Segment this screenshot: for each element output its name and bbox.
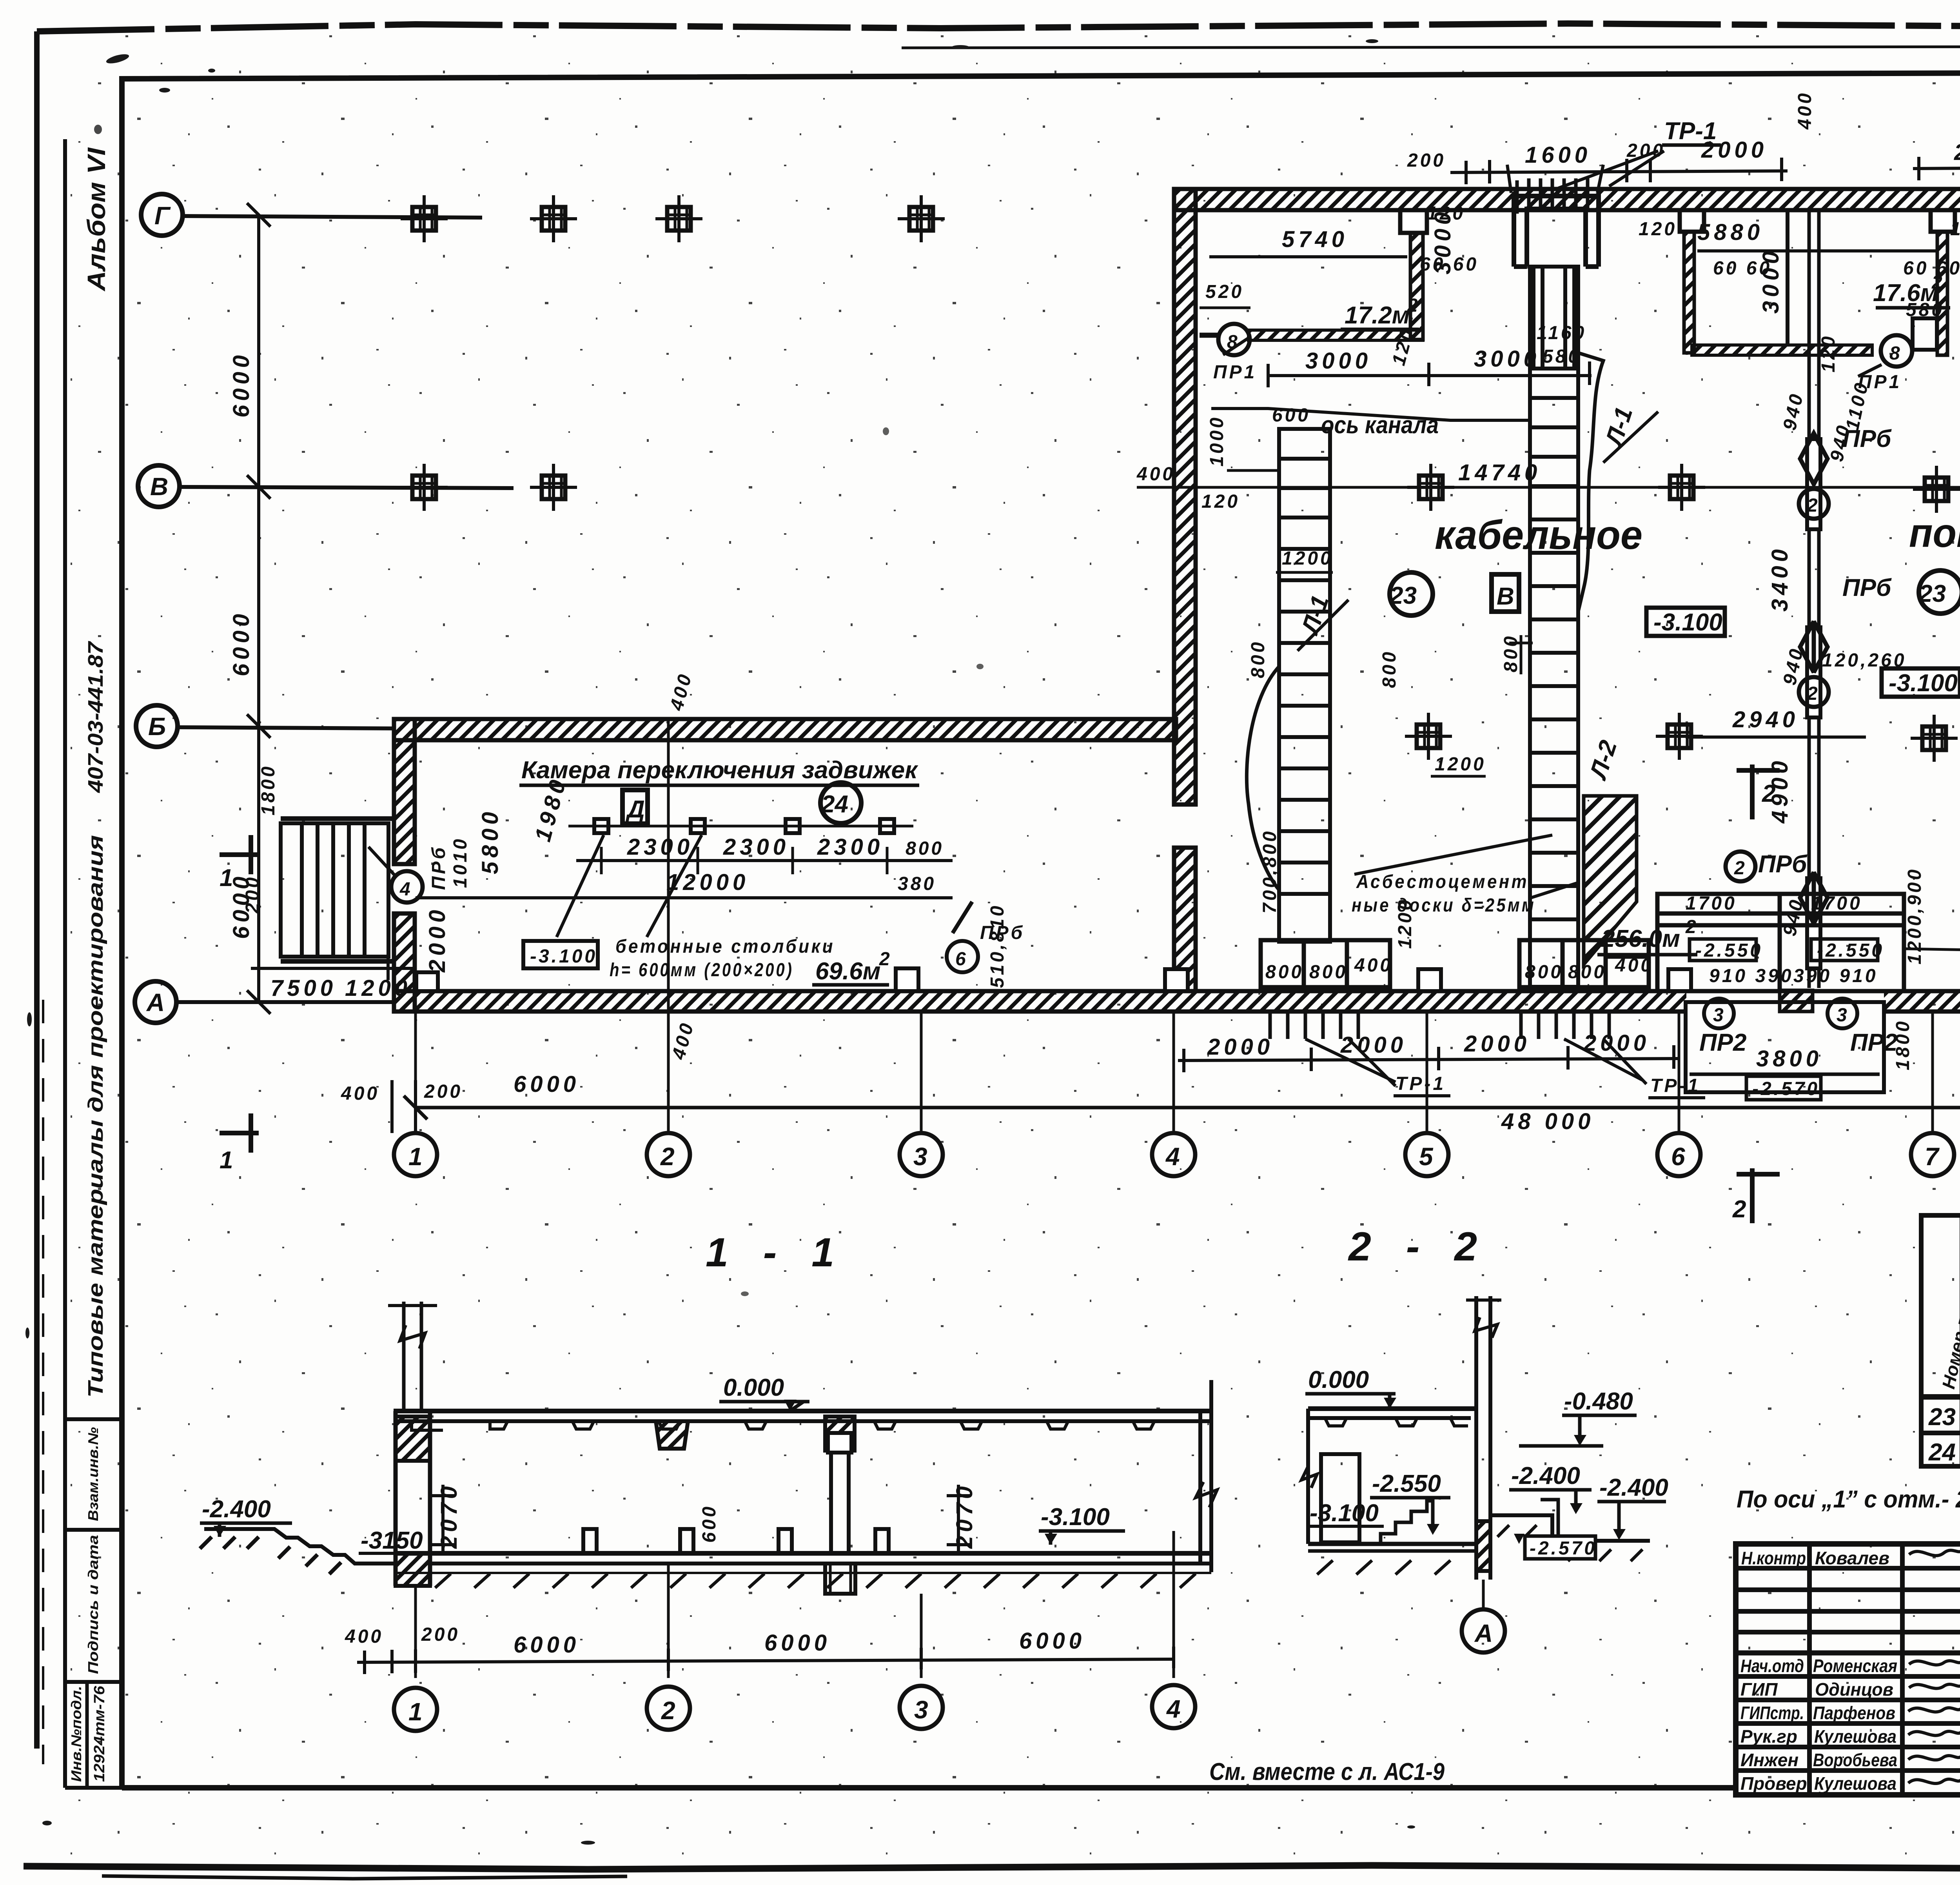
svg-text:1 - 1: 1 - 1	[706, 1230, 846, 1275]
svg-text:2: 2	[879, 949, 892, 970]
axis circle Б	[136, 705, 178, 747]
axis circle В	[138, 465, 180, 507]
svg-text:800: 800	[1525, 962, 1563, 982]
svg-text:ГИП: ГИП	[1740, 1679, 1778, 1700]
svg-text:Подпись и дата: Подпись и дата	[85, 1535, 101, 1674]
svg-text:6000: 6000	[1019, 1628, 1085, 1654]
svg-text:6000: 6000	[514, 1071, 580, 1097]
ground right	[1490, 1515, 1650, 1541]
svg-text:А: А	[1474, 1619, 1493, 1647]
svg-text:ТР-1: ТР-1	[1650, 1075, 1700, 1096]
roof slab	[394, 1409, 1211, 1413]
svg-text:1: 1	[220, 864, 233, 892]
svg-text:1160: 1160	[1537, 323, 1586, 343]
svg-text:Рук.гр: Рук.гр	[1740, 1726, 1797, 1747]
svg-text:2 - 2: 2 - 2	[1348, 1224, 1489, 1269]
low building west wall upper	[394, 719, 415, 864]
floor slab	[1308, 1542, 1476, 1546]
axis В line inside building	[1137, 486, 1960, 489]
svg-text:2000: 2000	[1583, 1030, 1650, 1056]
svg-text:1000: 1000	[1207, 415, 1227, 467]
level mark -3.100	[523, 941, 598, 968]
svg-text:800: 800	[1265, 962, 1304, 982]
svg-text:5: 5	[1419, 1142, 1434, 1171]
svg-text:2070: 2070	[952, 1482, 977, 1549]
svg-text:2000: 2000	[1701, 137, 1768, 163]
svg-text:-0.480: -0.480	[1564, 1388, 1633, 1415]
door stub west wall	[416, 972, 438, 991]
svg-text:-2.570: -2.570	[1530, 1538, 1597, 1559]
svg-text:2: 2	[1762, 780, 1775, 807]
wall continues up with break	[404, 1302, 421, 1411]
svg-text:Кулешова: Кулешова	[1814, 1726, 1896, 1747]
axis 2 line through low building	[667, 719, 670, 1012]
svg-text:ПРб: ПРб	[428, 845, 449, 890]
svg-text:6000: 6000	[229, 610, 254, 676]
48000 dimension line	[416, 1106, 1960, 1110]
svg-text:7500: 7500	[270, 975, 337, 1001]
svg-text:200: 200	[1407, 150, 1446, 171]
pit gap in south wall	[1686, 988, 1884, 1014]
svg-text:1200: 1200	[345, 975, 411, 1001]
svg-text:200: 200	[421, 1624, 460, 1645]
svg-text:кабельное: кабельное	[1435, 512, 1642, 558]
svg-text:520: 520	[1205, 281, 1244, 302]
column markers inside building : axis В row	[1407, 464, 1454, 511]
svg-text:1200: 1200	[1395, 897, 1416, 949]
svg-text:1700: 1700	[1686, 893, 1737, 914]
concrete posts row	[568, 819, 953, 874]
left margin column lines	[65, 139, 122, 1788]
ground hatch under floor	[435, 1574, 1196, 1588]
svg-text:3: 3	[1713, 1005, 1726, 1026]
svg-text:510,810: 510,810	[987, 903, 1008, 988]
svg-text:-2.570: -2.570	[1752, 1079, 1820, 1099]
closet	[1321, 1454, 1359, 1542]
svg-text:1800: 1800	[258, 764, 279, 815]
svg-text:Одинцов: Одинцов	[1815, 1679, 1893, 1700]
svg-text:-3.100: -3.100	[1041, 1504, 1110, 1531]
svg-text:7: 7	[1925, 1142, 1940, 1171]
svg-text:120: 120	[1427, 203, 1465, 224]
svg-text:400: 400	[345, 1626, 383, 1647]
12000 dim	[416, 896, 953, 899]
svg-text:Камера переключения задвижек: Камера переключения задвижек	[521, 757, 918, 784]
room number 24	[820, 783, 861, 823]
interior posts	[583, 1529, 597, 1553]
svg-text:1600: 1600	[1525, 142, 1591, 168]
room number 23 right	[1919, 570, 1960, 614]
axis circle А	[135, 981, 176, 1023]
svg-text:В: В	[150, 472, 168, 501]
svg-text:Д: Д	[625, 796, 645, 823]
svg-text:6000: 6000	[514, 1632, 580, 1658]
svg-text:2: 2	[1734, 858, 1747, 879]
svg-text:580: 580	[1906, 300, 1944, 320]
axis В line	[180, 487, 514, 488]
svg-text:-2.550: -2.550	[1372, 1470, 1441, 1497]
svg-text:14740: 14740	[1458, 460, 1541, 485]
svg-text:2070: 2070	[436, 1482, 462, 1549]
svg-text:2300: 2300	[627, 834, 693, 860]
svg-text:ГИПстр.: ГИПстр.	[1740, 1703, 1804, 1723]
section 1-1 axis circles	[394, 1685, 1195, 1731]
svg-text:Инв.№подл.: Инв.№подл.	[68, 1686, 84, 1782]
svg-text:800: 800	[1309, 962, 1348, 982]
svg-text:580: 580	[1543, 346, 1581, 367]
svg-text:256.0м: 256.0м	[1601, 925, 1680, 952]
svg-text:ПРб: ПРб	[1758, 851, 1808, 878]
svg-text:8: 8	[1889, 343, 1902, 364]
svg-text:1200: 1200	[1282, 548, 1333, 569]
svg-text:2300: 2300	[723, 834, 789, 860]
svg-text:-3.100: -3.100	[1653, 609, 1722, 636]
svg-text:Инжен: Инжен	[1740, 1750, 1798, 1770]
svg-text:2: 2	[1931, 272, 1945, 293]
svg-text:5800: 5800	[477, 808, 503, 874]
axis Г line	[183, 216, 482, 218]
column markers along axis В outside building	[401, 464, 448, 511]
svg-text:-2.550: -2.550	[1695, 940, 1763, 961]
west wall upper	[1174, 189, 1196, 804]
svg-text:23: 23	[1918, 580, 1946, 607]
svg-text:Асбестоцемент: Асбестоцемент	[1356, 872, 1529, 892]
svg-text:800: 800	[1379, 650, 1400, 688]
room A partition walls	[1200, 210, 1423, 340]
dim rows below south wall	[1178, 1041, 1960, 1072]
svg-text:Типовые материалы для проектир: Типовые материалы для проектирования	[84, 835, 107, 1398]
svg-text:-2.400: -2.400	[1599, 1474, 1668, 1501]
svg-text:120: 120	[1201, 491, 1240, 512]
svg-text:2000: 2000	[1954, 140, 1960, 165]
svg-text:3: 3	[914, 1696, 928, 1724]
svg-text:1800: 1800	[1893, 1019, 1913, 1070]
low building west wall lower	[394, 913, 415, 1012]
svg-text:-3.100: -3.100	[1310, 1500, 1379, 1527]
svg-text:69.6м: 69.6м	[815, 958, 881, 985]
svg-text:407-03-441.87: 407-03-441.87	[84, 641, 107, 793]
floor slab	[396, 1551, 1211, 1556]
-3.100 box left	[1646, 608, 1725, 636]
svg-text:800: 800	[1568, 962, 1606, 982]
svg-text:2: 2	[1407, 295, 1420, 316]
svg-text:400: 400	[341, 1083, 379, 1104]
svg-text:120: 120	[1818, 334, 1839, 372]
svg-text:23: 23	[1928, 1404, 1956, 1431]
svg-text:6: 6	[1671, 1142, 1685, 1171]
section mark 2 below	[1737, 1168, 1780, 1223]
svg-text:700,800: 700,800	[1259, 829, 1280, 913]
svg-text:120: 120	[1639, 219, 1677, 240]
column markers along axis Г	[401, 195, 1960, 762]
svg-text:600: 600	[699, 1504, 720, 1543]
Л-2 hatched stair area near middle shaft	[1584, 796, 1637, 964]
north wall	[1174, 189, 1960, 210]
svg-text:ПР1: ПР1	[1213, 362, 1257, 383]
svg-text:2300: 2300	[817, 834, 884, 860]
south wall full width low+main	[394, 991, 1960, 1012]
svg-text:400: 400	[1795, 91, 1815, 130]
svg-text:2: 2	[1807, 495, 1820, 516]
svg-text:24: 24	[821, 791, 848, 818]
svg-text:-3.100: -3.100	[1889, 670, 1958, 697]
svg-text:Ковалев: Ковалев	[1815, 1548, 1889, 1568]
svg-text:3: 3	[913, 1142, 927, 1171]
svg-text:2: 2	[1732, 1196, 1746, 1223]
svg-text:помещение: помещение	[1909, 510, 1960, 556]
svg-text:910 390: 910 390	[1709, 966, 1794, 986]
stair dim lines 7500 1200	[251, 967, 416, 970]
svg-text:48 000: 48 000	[1501, 1109, 1594, 1134]
svg-text:2: 2	[1807, 683, 1820, 704]
svg-text:6000: 6000	[229, 351, 254, 418]
svg-text:4: 4	[1166, 1695, 1181, 1723]
signatures squiggles	[1908, 1550, 1960, 1783]
svg-text:бетонные столбики: бетонные столбики	[615, 936, 835, 957]
svg-text:2: 2	[1685, 917, 1699, 937]
svg-text:Кулешова: Кулешова	[1814, 1773, 1896, 1794]
svg-text:380: 380	[898, 873, 936, 894]
svg-text:400: 400	[1615, 955, 1653, 976]
svg-text:2000: 2000	[1464, 1031, 1530, 1057]
svg-text:2000: 2000	[1340, 1032, 1407, 1058]
svg-text:ные доски δ=25мм: ные доски δ=25мм	[1352, 895, 1536, 916]
west wall lower piece	[1174, 848, 1196, 991]
foundation block bottom of left shaft	[1261, 940, 1390, 987]
svg-text:Воробьева: Воробьева	[1813, 1750, 1897, 1770]
svg-text:3400: 3400	[1767, 545, 1793, 612]
svg-text:-2.400: -2.400	[1511, 1462, 1580, 1489]
svg-text:0.000: 0.000	[1308, 1366, 1369, 1393]
svg-text:Взам.инв.№: Взам.инв.№	[85, 1427, 101, 1521]
svg-text:3000: 3000	[1474, 346, 1540, 372]
west entry stair of low building	[251, 819, 416, 980]
left margin rotated captions	[68, 147, 111, 1782]
axis A circle below	[1482, 1580, 1485, 1609]
dims below section 1-1	[416, 1531, 1174, 1678]
dims above portal 200 1600 200 2000	[1450, 171, 1788, 173]
column stub room A top	[1400, 210, 1427, 233]
door mark circle 4 west wall	[391, 871, 423, 903]
foundation block bottom of middle shaft	[1519, 940, 1649, 987]
outer page border top heavy dashed	[37, 24, 1960, 31]
fire door diamonds	[1726, 433, 1829, 923]
svg-text:17.2м: 17.2м	[1345, 302, 1410, 329]
axis A wall	[1476, 1296, 1490, 1580]
svg-text:12000: 12000	[666, 870, 749, 895]
svg-text:-3150: -3150	[361, 1527, 423, 1554]
svg-text:-2.400: -2.400	[202, 1496, 271, 1523]
svg-text:В: В	[1497, 583, 1514, 610]
low building north wall	[394, 719, 1960, 1012]
svg-text:60 60: 60 60	[1420, 254, 1479, 275]
axis 3 column	[831, 1433, 849, 1553]
svg-text:200: 200	[1626, 140, 1665, 161]
svg-text:ТР-1: ТР-1	[1396, 1073, 1446, 1094]
svg-text:4: 4	[1165, 1142, 1180, 1171]
left edge with break	[1306, 1409, 1310, 1544]
svg-text:По оси „1” с отм.- 2.130 до от: По оси „1” с отм.- 2.130 до отм.- 0.030 …	[1737, 1486, 1960, 1513]
axis А line	[176, 1000, 396, 1004]
outer page border bottom wavy	[24, 1865, 1960, 1869]
svg-text:2: 2	[661, 1696, 675, 1725]
svg-text:4: 4	[399, 879, 413, 900]
ticks on north wall at portal	[1517, 178, 1588, 214]
right wall with break	[1200, 1380, 1211, 1572]
svg-text:3000: 3000	[1758, 247, 1784, 314]
svg-text:См. вместе с л. АС1-9: См. вместе с л. АС1-9	[1209, 1758, 1445, 1785]
svg-text:12924тм-76: 12924тм-76	[91, 1685, 108, 1782]
vertical dimension line between axes	[257, 215, 260, 1002]
svg-text:400: 400	[1354, 955, 1393, 976]
svg-text:Альбом VI: Альбом VI	[82, 147, 111, 292]
svg-text:1: 1	[408, 1142, 423, 1171]
axis Б line	[178, 727, 396, 728]
svg-text:120: 120	[1950, 219, 1960, 240]
svg-text:800: 800	[1501, 634, 1521, 672]
svg-text:2: 2	[660, 1142, 675, 1171]
svg-text:2940: 2940	[1732, 707, 1799, 732]
svg-text:24: 24	[1928, 1439, 1956, 1466]
svg-text:800: 800	[1248, 640, 1269, 678]
left wall	[396, 1411, 430, 1586]
svg-text:5740: 5740	[1282, 227, 1348, 252]
steps	[1381, 1501, 1434, 1545]
svg-text:1010: 1010	[450, 837, 471, 888]
svg-text:0.000: 0.000	[723, 1374, 784, 1401]
svg-text:3000: 3000	[1305, 348, 1372, 374]
dims 400 200 6000 left	[392, 1080, 416, 1133]
column markers inside building : axis Б row	[1405, 713, 1452, 760]
svg-text:200: 200	[424, 1081, 463, 1102]
svg-text:3: 3	[1837, 1005, 1849, 1026]
wavy open edge	[1578, 353, 1603, 612]
svg-text:Н.контр: Н.контр	[1741, 1548, 1806, 1568]
room A door mark 8	[1218, 324, 1250, 355]
svg-text:ось канала: ось канала	[1321, 412, 1439, 439]
svg-text:Парфенов: Парфенов	[1813, 1703, 1895, 1723]
svg-text:23: 23	[1389, 582, 1417, 609]
svg-text:1700: 1700	[1811, 893, 1862, 914]
svg-text:Г: Г	[154, 202, 171, 230]
svg-text:5880: 5880	[1697, 220, 1764, 245]
svg-text:ПРб: ПРб	[1842, 574, 1892, 601]
TP-1 tick groups under south wall	[1270, 1012, 1960, 1039]
svg-text:3800: 3800	[1756, 1046, 1822, 1071]
svg-text:1: 1	[220, 1147, 233, 1174]
roof slab	[1308, 1406, 1476, 1411]
svg-text:-3.100: -3.100	[530, 946, 597, 967]
svg-text:6: 6	[955, 949, 968, 970]
svg-text:400: 400	[1136, 464, 1175, 485]
svg-text:ПРб: ПРб	[1842, 425, 1892, 452]
svg-text:h= 600мм (200×200): h= 600мм (200×200)	[610, 960, 794, 981]
outer page border left	[34, 31, 40, 1749]
ground hatch left steps	[204, 1529, 396, 1564]
svg-text:800: 800	[906, 838, 944, 859]
svg-text:ПР2: ПР2	[1850, 1029, 1897, 1056]
svg-text:2000: 2000	[1207, 1034, 1274, 1060]
room mark Д	[622, 790, 648, 824]
svg-text:2000: 2000	[425, 906, 450, 973]
middle stair shaft	[1530, 267, 1603, 987]
svg-text:Б: Б	[148, 712, 166, 741]
svg-text:390 910: 390 910	[1793, 966, 1878, 986]
svg-text:А: А	[146, 988, 165, 1017]
svg-text:Нач.отд: Нач.отд	[1740, 1656, 1804, 1676]
svg-text:Провер: Провер	[1740, 1773, 1807, 1794]
svg-text:Роменская: Роменская	[1813, 1656, 1897, 1676]
В mark left	[1492, 574, 1519, 612]
svg-text:200: 200	[242, 875, 263, 914]
ПРб door east end of chamber	[947, 902, 978, 972]
section mark 1 left	[220, 835, 259, 1153]
-3.100 box right	[1882, 668, 1960, 697]
middle beam pocket	[656, 1421, 688, 1449]
svg-text:6000: 6000	[764, 1630, 831, 1656]
svg-text:1200: 1200	[1435, 754, 1486, 775]
leader бетонные столбики	[557, 835, 702, 937]
svg-text:1: 1	[408, 1698, 423, 1726]
door in south wall of chamber	[896, 968, 918, 991]
axis circle Г	[141, 194, 183, 236]
svg-text:-2.550: -2.550	[1817, 940, 1884, 961]
room number 23 left	[1390, 572, 1433, 616]
svg-text:ПР2: ПР2	[1699, 1029, 1746, 1056]
